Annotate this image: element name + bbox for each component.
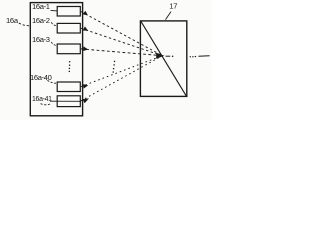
leader 16a-40 (dashed) xyxy=(47,80,57,83)
arrowhead ray 41 xyxy=(83,98,89,103)
arrowhead ray 40 xyxy=(83,84,89,88)
leader line into box 16a-41 xyxy=(50,100,81,102)
emitter box 16a-2 xyxy=(57,23,80,33)
dash-dot output ray xyxy=(166,55,171,57)
emitter box 16a-41 xyxy=(57,96,80,107)
outer box (light source array enclosure) xyxy=(30,3,82,116)
deflector box 17 xyxy=(140,21,186,97)
svg-text:16a-1: 16a-1 xyxy=(32,2,50,11)
svg-text:16a-41: 16a-41 xyxy=(32,96,52,103)
vertical ellipsis inside array xyxy=(69,61,71,63)
svg-text:16a-40: 16a-40 xyxy=(30,73,52,82)
dashed ray from 16a-1 xyxy=(81,12,162,56)
leader 16a-2 (dashed) xyxy=(51,22,57,25)
arrowhead ray 3 xyxy=(83,46,88,51)
emitter box 16a-40 xyxy=(57,82,80,92)
leader 16a-41 (dashed) xyxy=(41,104,51,105)
svg-text:16a: 16a xyxy=(6,16,19,25)
leader 16a-1 xyxy=(51,9,58,12)
arrowhead ray 1 xyxy=(82,11,88,16)
emitter box 16a-3 xyxy=(57,44,80,54)
emitter box 16a-1 xyxy=(57,7,80,17)
dashed ray from 16a-3 xyxy=(81,49,162,56)
arrowhead ray 2 xyxy=(83,26,88,30)
leader 17 xyxy=(166,12,172,20)
leader 16a-3 (dashed) xyxy=(51,42,57,46)
ellipsis between rays xyxy=(114,61,116,63)
dashed ray from 16a-41 xyxy=(81,56,162,101)
dashed ray from 16a-40 xyxy=(81,56,162,87)
svg-text:16a-2: 16a-2 xyxy=(32,16,50,25)
convergence arrowhead xyxy=(156,53,164,59)
mirror diagonal xyxy=(141,22,186,97)
svg-text:16a-3: 16a-3 xyxy=(32,35,50,44)
leader for 16a (dashed) xyxy=(19,23,30,26)
svg-text:17: 17 xyxy=(169,2,177,11)
dashed ray from 16a-2 xyxy=(81,28,162,55)
